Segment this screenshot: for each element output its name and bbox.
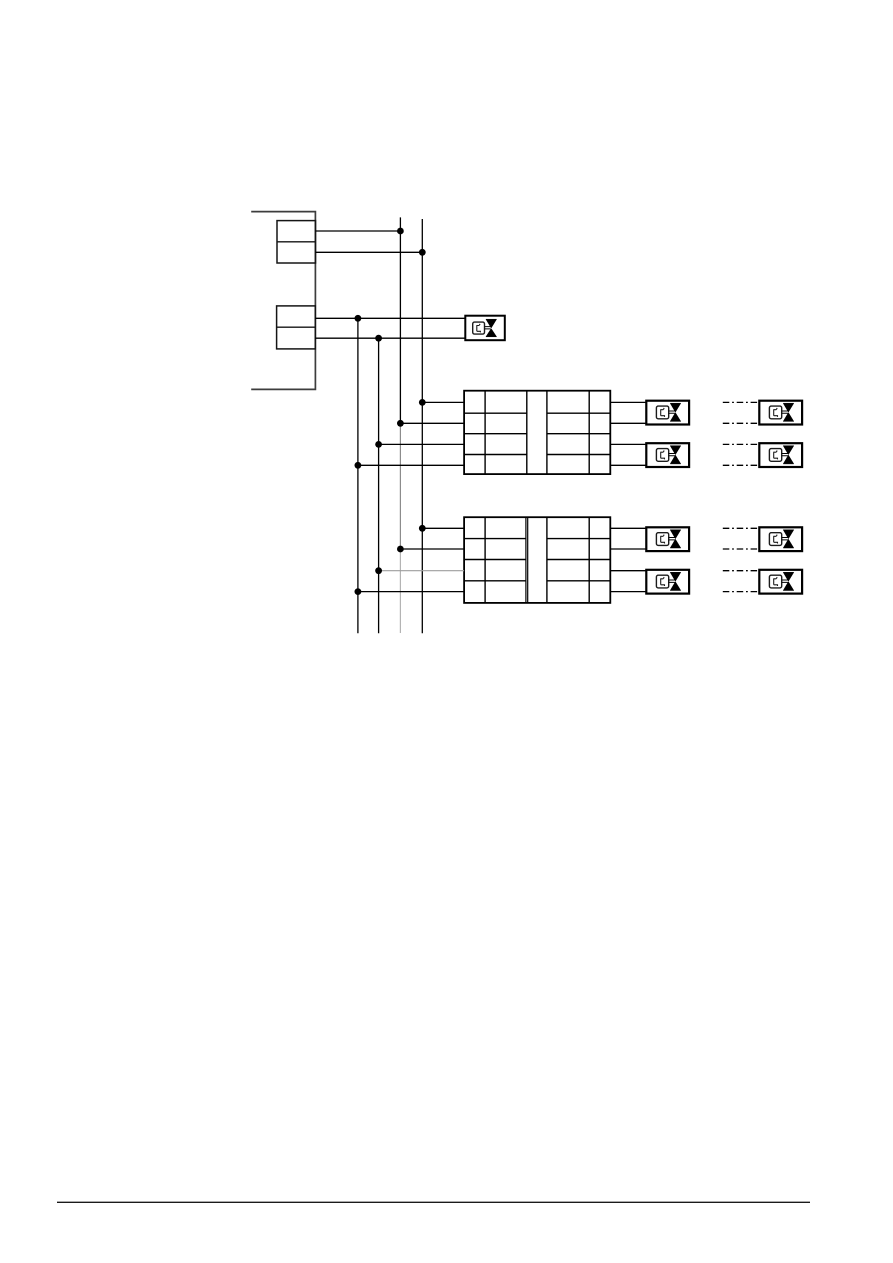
valve Y4	[646, 570, 689, 594]
connector block X1	[277, 221, 316, 263]
junction dot V3 row2B	[397, 546, 404, 553]
wire bus V2 to block A row3	[379, 443, 465, 445]
junction dot V2 row3B	[375, 567, 382, 574]
block A row line 2	[464, 433, 610, 435]
wire bus V1 to block A row4	[358, 464, 464, 466]
junction dot V3/X1 pin1	[397, 228, 404, 235]
block B column divider 2 (double line)	[526, 517, 528, 603]
dash-dot lead to valve Y6 (top)	[723, 443, 759, 445]
dash-dot lead to valve Y8 (top)	[723, 570, 759, 572]
block B column divider 1	[484, 517, 486, 603]
connector X2 divider	[277, 326, 316, 328]
block B row line 1	[464, 538, 610, 540]
bus line V2	[378, 338, 380, 633]
wire bus V4 to block B row1	[422, 527, 464, 529]
block A row line 3	[464, 454, 610, 456]
valve Y7	[759, 527, 802, 551]
junction dot V1 row4	[355, 462, 362, 469]
wire bus V3 to block A row2	[400, 422, 464, 424]
connector block X2	[277, 306, 316, 349]
wire block A row1 to valve Y1	[610, 401, 646, 403]
dash-dot lead to valve Y8 (bottom)	[723, 591, 759, 593]
terminal block A outline	[464, 391, 610, 474]
wire bus V3 to block B row2	[400, 548, 464, 550]
dash-dot lead to valve Y6 (bottom)	[723, 464, 759, 466]
junction dot V1/X2 pin1	[355, 315, 362, 322]
wire bus V2 to block B row3 (faded)	[379, 570, 465, 572]
block A row line 1	[464, 412, 610, 414]
block B row line 2	[464, 559, 610, 561]
dash-dot lead to valve Y7 (bottom)	[723, 548, 759, 550]
terminal block B outline	[464, 517, 610, 603]
bus line V4	[421, 219, 423, 633]
wire block B row3 to valve Y4	[610, 570, 646, 572]
valve Y0 body	[465, 316, 505, 341]
valve Y1	[646, 401, 689, 425]
wire block B row4 to valve Y4	[610, 591, 646, 593]
block B row line 3	[464, 580, 610, 582]
bus line V3 upper segment	[399, 217, 401, 423]
junction dot V1 row4B	[355, 588, 362, 595]
dash-dot lead to valve Y7 (top)	[723, 527, 759, 529]
block B column divider 4	[588, 517, 590, 603]
block A column divider 2	[526, 391, 528, 474]
bus line V1	[357, 318, 359, 633]
dash-dot lead to valve Y5 (bottom)	[723, 422, 759, 424]
wire bus V4 to block A row1	[422, 401, 464, 403]
block A column divider 4	[588, 391, 590, 474]
block A column divider 1	[484, 391, 486, 474]
wire X2 pin2 to valve Y0	[315, 337, 465, 339]
wire X1 pin1 to bus V3	[316, 230, 401, 232]
wire X1 pin2 to bus V4	[316, 251, 423, 253]
valve Y3	[646, 527, 689, 551]
valve Y5	[759, 401, 802, 425]
valve Y6	[759, 443, 802, 467]
wire block B row2 to valve Y3	[610, 548, 646, 550]
connector X1 divider	[277, 241, 316, 243]
junction dot V3 row2	[397, 420, 404, 427]
junction dot V4 row1	[419, 399, 426, 406]
valve Y8	[759, 570, 802, 594]
bus line V3 middle segment (faded)	[399, 423, 401, 549]
footer rule	[57, 1201, 810, 1203]
junction dot V4/X1 pin2	[419, 249, 426, 256]
wire block A row2 to valve Y1	[610, 422, 646, 424]
wire X2 pin1 to valve Y0	[315, 317, 465, 319]
control unit housing outline (open left)	[251, 212, 315, 390]
wire block A row4 to valve Y2	[610, 464, 646, 466]
wire block B row1 to valve Y3	[610, 527, 646, 529]
junction dot V4 row1B	[419, 525, 426, 532]
bus line V3 lower segment (faded)	[399, 549, 401, 633]
wire bus V1 to block B row4	[358, 591, 464, 593]
block A column divider 3	[546, 391, 548, 474]
block B column divider 3	[546, 517, 548, 603]
wire block A row3 to valve Y2	[610, 443, 646, 445]
junction dot V2/X2 pin2	[375, 335, 382, 342]
valve Y2	[646, 443, 689, 467]
dash-dot lead to valve Y5 (top)	[723, 401, 759, 403]
junction dot V2 row3	[375, 441, 382, 448]
